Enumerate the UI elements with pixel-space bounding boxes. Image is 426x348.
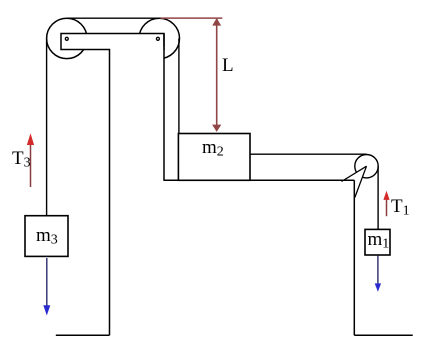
floor line right [354, 334, 412, 336]
arrow weight m3 (blue, down) [46, 258, 48, 307]
mass m1 box [365, 229, 390, 255]
pin dot right pulley [156, 37, 159, 40]
post white fill (masks pulley arc) [110, 47, 163, 335]
mass m3 box [25, 216, 68, 257]
arrow T1 (red, up) [386, 199, 388, 217]
wall post right side [163, 34, 165, 181]
shelf right side [353, 180, 355, 335]
wall post left side [109, 49, 111, 335]
label T3 [12, 148, 31, 172]
arrow T3 (red, up) [30, 144, 32, 188]
bracket fill (masks pulley arc) [342, 166, 367, 197]
arrow weight m1 (blue, down) [377, 256, 379, 285]
wire rope down to m1 [377, 166, 379, 229]
bracket lower edge [355, 166, 367, 197]
floor line left [56, 334, 110, 336]
wire rope m2 to small pulley [250, 153, 367, 155]
wire rope down to m2 [178, 38, 180, 133]
pulley P-left (top bar) [47, 18, 87, 58]
bracket edge to pulley center [342, 166, 367, 181]
label T1 [391, 196, 410, 220]
shelf top [163, 179, 354, 181]
pulley mounting bar [61, 34, 164, 50]
label L [222, 55, 234, 77]
label m1 [368, 229, 390, 253]
wire rope over both top pulleys [67, 17, 161, 19]
mass m2 box [178, 134, 250, 181]
dimension arrow L (dark red, double head) [216, 24, 218, 126]
pulley P-right (top bar) [139, 18, 179, 58]
wire dimension extension line (dark red) [161, 17, 223, 19]
wire rope left (to m3) [46, 38, 48, 215]
pin dot left pulley [65, 37, 68, 40]
pulley P3 (small, at shelf corner) [355, 155, 378, 178]
label m2 [202, 137, 224, 161]
label m3 [36, 225, 58, 249]
